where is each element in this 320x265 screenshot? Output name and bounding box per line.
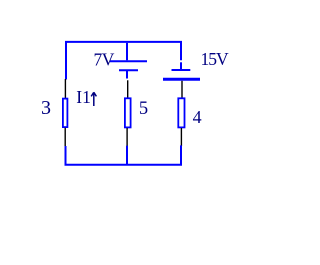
wire black middle upper: [127, 80, 129, 98]
svg-text:15V: 15V: [201, 49, 230, 69]
wire middle bottom riser: [126, 146, 128, 165]
wire 15V upper stub below gap: [180, 62, 182, 69]
svg-text:3: 3: [41, 97, 51, 119]
battery V1 7V short plate: [119, 69, 138, 71]
wire black right lower: [180, 128, 182, 146]
resistor R4 value 4: [178, 98, 184, 127]
svg-text:7V: 7V: [94, 49, 115, 69]
svg-text:5: 5: [139, 99, 148, 119]
battery V1 7V long plate: [110, 60, 147, 62]
resistor R5 value 5: [125, 98, 131, 127]
wire black right upper: [181, 81, 183, 98]
resistor R3 value 3: [63, 99, 68, 128]
wire 7V branch from top rail: [126, 43, 128, 60]
wire top rail with left and right drops: [66, 42, 181, 80]
wire bottom rail with left and right risers: [66, 145, 182, 164]
wire black left upper: [64, 79, 66, 98]
wire black middle lower: [126, 128, 128, 147]
battery V2 15V short plate: [172, 69, 191, 71]
wire black left lower: [64, 128, 66, 147]
svg-text:I1: I1: [76, 87, 91, 107]
current arrow I1 up: [91, 92, 96, 106]
wire 7V lower stub: [126, 71, 128, 79]
svg-text:4: 4: [193, 107, 202, 127]
battery V2 15V long plate: [163, 78, 200, 81]
